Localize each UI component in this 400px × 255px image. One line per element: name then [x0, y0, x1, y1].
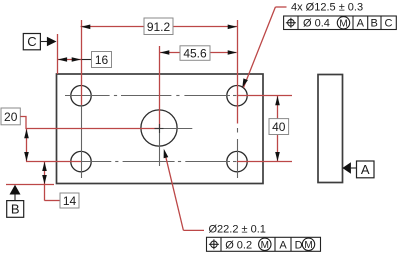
side view plate — [318, 75, 343, 183]
svg-text:M: M — [261, 240, 269, 251]
hole bottom-right — [227, 151, 247, 171]
svg-text:A: A — [279, 239, 287, 251]
center hole center tick — [155, 124, 164, 133]
feature control frame top (4x holes) — [284, 16, 397, 30]
svg-text:A: A — [361, 162, 370, 177]
feature control frame bottom (center hole) — [207, 237, 321, 251]
position symbol — [209, 239, 219, 249]
extension line bottom-right hole to 40 dim — [237, 161, 292, 163]
extension line plate-left (for 16) — [57, 34, 59, 74]
svg-text:C: C — [385, 18, 393, 30]
dimension 16 — [58, 52, 112, 68]
modifier M circle on D — [302, 238, 314, 250]
svg-text:Ø22.2 ± 0.1: Ø22.2 ± 0.1 — [209, 224, 266, 236]
svg-text:B: B — [11, 202, 20, 217]
centerline center column — [159, 128, 161, 166]
center hole — [141, 110, 177, 146]
svg-text:M: M — [339, 19, 347, 30]
svg-text:M: M — [304, 240, 312, 251]
svg-text:14: 14 — [63, 194, 77, 208]
svg-text:Ø 0.2: Ø 0.2 — [225, 239, 252, 251]
extension line plate bottom left (for 14 / datum B) — [6, 184, 54, 186]
datum B — [7, 185, 24, 218]
dimension 20 — [1, 108, 29, 161]
datum C — [23, 34, 56, 50]
centerline right column — [237, 128, 239, 178]
leader to 4x holes — [242, 7, 286, 88]
modifier M circle — [259, 238, 271, 250]
centerline top row — [65, 95, 237, 97]
centerline left column — [81, 80, 83, 178]
svg-text:4x Ø12.5 ± 0.3: 4x Ø12.5 ± 0.3 — [291, 2, 363, 14]
svg-text:91.2: 91.2 — [147, 20, 171, 34]
svg-text:20: 20 — [4, 110, 18, 124]
svg-text:A: A — [357, 18, 365, 30]
dimension 91.2 — [81, 18, 238, 35]
dimension 45.6 — [160, 46, 238, 61]
extension line bottom hole row left (for 20/14) — [26, 161, 81, 163]
hole top-right — [227, 86, 247, 106]
extension line center hole row left (for 20) — [26, 128, 159, 130]
position symbol — [286, 18, 296, 28]
svg-text:Ø 0.4: Ø 0.4 — [303, 18, 330, 30]
centerline middle row — [159, 128, 192, 130]
svg-text:C: C — [27, 34, 36, 49]
front view plate — [57, 74, 264, 184]
dimension 40 — [269, 96, 289, 161]
extension line center column (for 45.6) — [159, 46, 161, 128]
extension line top-right hole to 40 dim — [237, 95, 292, 97]
centerline bottom row — [81, 161, 237, 163]
hole bottom-left — [71, 151, 91, 171]
svg-text:45.6: 45.6 — [183, 46, 207, 60]
extension line left hole column (for 91.2/16) — [81, 20, 83, 105]
svg-text:B: B — [371, 18, 378, 30]
datum A — [342, 161, 374, 178]
dimension 14 — [42, 162, 79, 208]
svg-text:40: 40 — [272, 120, 286, 134]
extension line right hole column (for 91.2/45.6) — [237, 20, 239, 124]
modifier M circle — [337, 17, 349, 29]
leader to center hole — [164, 149, 204, 231]
hole top-left — [71, 86, 91, 106]
svg-text:D: D — [295, 239, 303, 251]
svg-text:16: 16 — [95, 53, 109, 67]
